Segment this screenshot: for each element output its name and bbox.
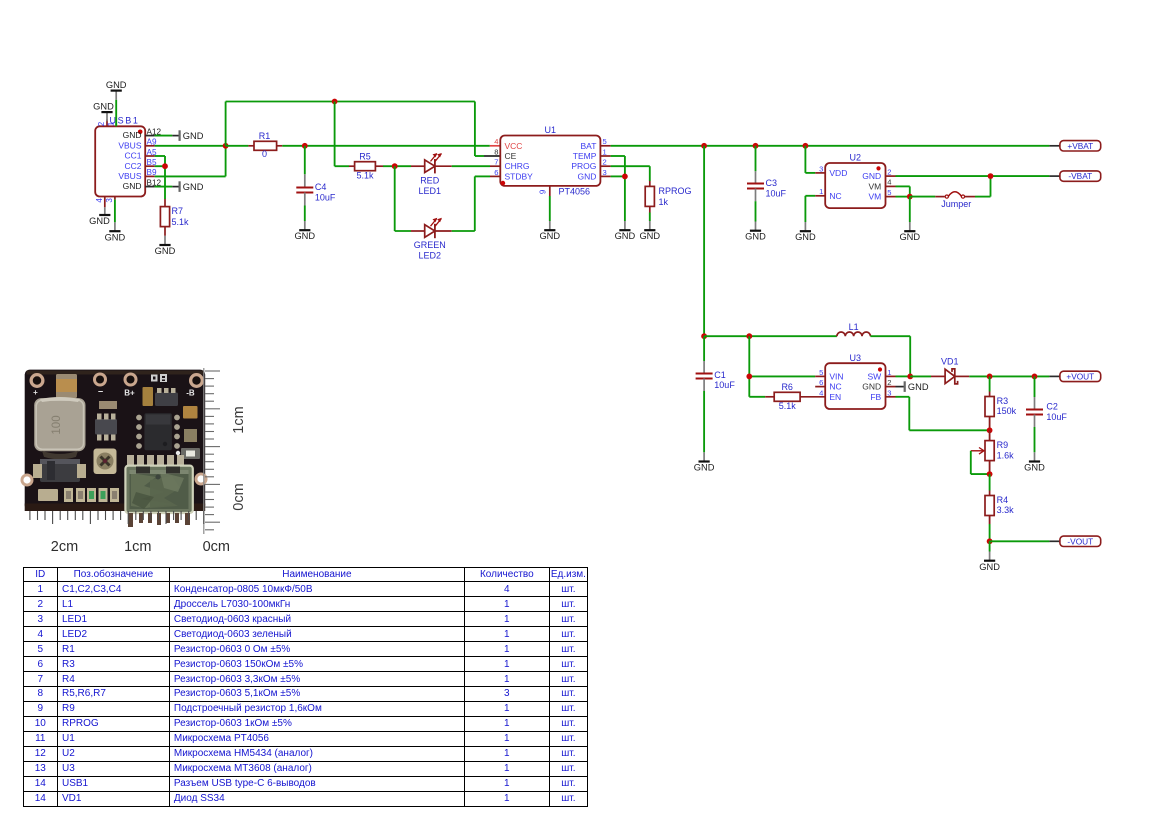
svg-text:GND: GND <box>745 232 766 242</box>
resistor R7 <box>160 199 189 236</box>
wire R1 to VCC <box>282 145 500 147</box>
transistor U2 HM5434 body <box>825 153 885 209</box>
node VIN junction <box>746 374 752 380</box>
inductor L1 <box>837 322 871 336</box>
wire SW to VD1 anode <box>910 375 945 377</box>
U3 pin SW name and number 1 <box>867 368 891 382</box>
U1 pin VCC name and number 4 <box>494 137 522 151</box>
svg-text:4: 4 <box>887 178 891 187</box>
ground above USB1 pin 1 <box>106 80 127 100</box>
ground below -VOUT junction <box>979 541 1000 572</box>
svg-text:9: 9 <box>539 189 548 194</box>
wire CC1 A5 to CC2 net <box>145 156 165 199</box>
U3 pin EN name and number 4 <box>819 388 841 402</box>
ground below U1 pin 9 <box>539 221 560 241</box>
ground below C4 <box>294 221 315 241</box>
svg-text:3: 3 <box>603 168 607 177</box>
svg-text:1k: 1k <box>659 197 669 207</box>
ground below C1 <box>694 452 715 472</box>
small parts near SOP8 bottom <box>181 448 200 459</box>
svg-text:100: 100 <box>51 415 63 434</box>
svg-text:FB: FB <box>870 392 881 402</box>
svg-text:SW: SW <box>867 372 881 382</box>
svg-text:GND: GND <box>123 181 142 191</box>
svg-text:L1: L1 <box>849 322 859 332</box>
svg-text:CHRG: CHRG <box>505 161 530 171</box>
svg-text:GND: GND <box>539 231 560 241</box>
node BAT junction to boost <box>701 143 707 149</box>
svg-text:3: 3 <box>819 164 823 173</box>
svg-text:−: − <box>98 387 103 397</box>
svg-text:VDD: VDD <box>829 168 847 178</box>
ground right of U3 GND <box>905 381 929 392</box>
wire U1 pin9 to ground <box>549 196 551 221</box>
svg-text:GND: GND <box>694 463 715 473</box>
svg-text:5.1k: 5.1k <box>356 170 374 180</box>
U2 pin VM name and number 5 <box>868 188 891 202</box>
diode below inductor <box>40 459 80 482</box>
power flag +VBAT <box>1060 141 1101 151</box>
svg-text:R6: R6 <box>781 382 793 392</box>
node R9 wiper junction <box>987 471 993 477</box>
USB1 pin 2 stub (top left) <box>97 120 107 127</box>
svg-text:C3: C3 <box>766 178 778 188</box>
diode VD1 SS34 schottky <box>941 357 969 384</box>
svg-text:5.1k: 5.1k <box>779 401 797 411</box>
svg-text:R4: R4 <box>997 495 1009 505</box>
wire VD1 to +VOUT <box>969 375 1060 377</box>
svg-text:R5: R5 <box>359 151 371 161</box>
wire VBUS B9 up to A9 net <box>145 146 225 177</box>
svg-text:NC: NC <box>829 382 841 392</box>
svg-text:R3: R3 <box>997 396 1009 406</box>
ground below C3 <box>745 222 766 242</box>
wire L1 to SW <box>870 336 910 376</box>
svg-text:RPROG: RPROG <box>659 186 692 196</box>
resistor R5 <box>349 151 383 180</box>
svg-text:VBUS: VBUS <box>118 171 141 181</box>
ground below RPROG <box>639 221 660 241</box>
svg-text:10uF: 10uF <box>315 193 336 203</box>
svg-text:10uF: 10uF <box>1046 412 1067 422</box>
svg-text:2: 2 <box>887 168 891 177</box>
U3 pin VIN name and number 5 <box>819 368 843 382</box>
ruler <box>30 368 247 555</box>
node SW junction <box>907 374 913 380</box>
U1 pin BAT name and number 5 <box>580 137 606 151</box>
svg-text:4: 4 <box>95 198 104 203</box>
svg-text:R1: R1 <box>259 131 271 141</box>
svg-text:1.6k: 1.6k <box>997 450 1015 460</box>
svg-text:GREEN: GREEN <box>414 240 446 250</box>
wire VIN branch <box>749 336 825 397</box>
svg-text:GND: GND <box>979 562 1000 572</box>
wire U2 VDD to BAT <box>805 146 825 173</box>
op-amp U1 PT4056 body <box>500 125 600 196</box>
bottom row passives <box>38 489 58 501</box>
node CC junction <box>162 163 168 169</box>
U1 pin 9 bottom stub <box>539 186 550 196</box>
svg-text:GND: GND <box>795 232 816 242</box>
svg-text:Jumper: Jumper <box>941 199 971 209</box>
svg-text:TEMP: TEMP <box>573 151 597 161</box>
svg-text:GND: GND <box>862 171 881 181</box>
top right SOT89 <box>155 393 178 407</box>
U2 pin VM name and number 4 <box>868 178 891 192</box>
svg-text:-VBAT: -VBAT <box>1068 171 1092 181</box>
U1 pin PROG name and number 2 <box>571 158 606 172</box>
svg-text:-B: -B <box>186 389 195 398</box>
svg-text:GND: GND <box>106 80 127 90</box>
USB1 pin 3 stub (bottom) <box>105 197 115 203</box>
svg-text:VBUS: VBUS <box>118 140 141 150</box>
U3 pin NC name and number 6 <box>815 378 841 392</box>
U3 pin FB name and number 3 <box>870 388 891 402</box>
svg-text:3.3k: 3.3k <box>997 505 1015 515</box>
wire top rail <box>226 101 475 103</box>
USB1 pin 4 stub (bottom left) <box>95 197 105 208</box>
svg-text:4: 4 <box>819 388 823 397</box>
node junction at VIN branch <box>746 333 752 339</box>
capacitor C2 <box>1026 376 1067 452</box>
svg-text:+: + <box>33 388 38 397</box>
svg-text:2: 2 <box>603 158 607 167</box>
svg-text:5: 5 <box>819 368 823 377</box>
svg-text:PROG: PROG <box>571 161 596 171</box>
connector USB1 <box>95 116 161 197</box>
wire USB1 pin3 to ground <box>114 200 116 223</box>
wire U3 GND pin to ground <box>886 386 904 388</box>
wire jumper up to -VBAT <box>990 176 992 197</box>
wire U2 VM pin5 <box>886 196 910 198</box>
svg-text:0cm: 0cm <box>203 539 230 555</box>
svg-text:3: 3 <box>105 198 114 203</box>
ground right of A12 <box>180 130 204 141</box>
wire R5 to LED1 <box>383 165 425 167</box>
wire U3 FB to divider <box>886 397 990 431</box>
jumper JP1 <box>910 192 991 209</box>
svg-text:7: 7 <box>494 158 498 167</box>
U2 pin GND name and number 2 <box>862 168 891 182</box>
svg-text:5: 5 <box>887 188 891 197</box>
svg-text:1: 1 <box>603 147 607 156</box>
capacitor C4 <box>296 146 336 221</box>
USB type-C connector <box>125 466 192 527</box>
ground below USB1 pin 3 <box>105 222 126 242</box>
U1 pin CE name and number 8 <box>494 147 516 161</box>
svg-text:+VBAT: +VBAT <box>1067 141 1093 151</box>
ground right of B12 <box>180 181 204 192</box>
svg-text:150k: 150k <box>997 406 1017 416</box>
resistor R6 <box>749 382 825 411</box>
SOP8 <box>144 413 172 450</box>
svg-text:C2: C2 <box>1046 402 1058 412</box>
svg-text:GND: GND <box>105 232 126 242</box>
svg-text:LED1: LED1 <box>418 186 441 196</box>
svg-text:GND: GND <box>183 131 204 141</box>
svg-text:BAT: BAT <box>580 141 596 151</box>
node BAT junction at U2 VDD <box>803 143 809 149</box>
svg-text:CC2: CC2 <box>124 161 141 171</box>
svg-text:R9: R9 <box>997 440 1009 450</box>
U1 pin GND name and number 3 <box>578 168 607 182</box>
svg-text:2cm: 2cm <box>51 539 78 555</box>
wire LED2 to STDBY <box>435 176 501 231</box>
svg-text:1cm: 1cm <box>231 406 247 433</box>
svg-text:0: 0 <box>262 149 267 159</box>
svg-text:GND: GND <box>639 231 660 241</box>
U3 pin GND name and number 2 <box>862 378 891 392</box>
node boost input junction <box>701 333 707 339</box>
SOT23-6 <box>95 419 117 435</box>
resistor R1 <box>226 131 283 159</box>
svg-text:U2: U2 <box>850 153 862 163</box>
ground below TEMP net <box>615 221 636 241</box>
wire U2 GND to -VBAT <box>886 175 1060 177</box>
node TEMP-GND junction <box>622 174 628 180</box>
U2 pin NC name and number 1 <box>819 187 842 201</box>
wire PROG to RPROG <box>600 166 649 181</box>
svg-text:CC1: CC1 <box>124 151 141 161</box>
svg-text:PT4056: PT4056 <box>559 186 591 196</box>
wire to -VOUT flag <box>990 540 1060 542</box>
svg-text:STDBY: STDBY <box>505 171 534 181</box>
power flag +VOUT <box>1060 371 1101 381</box>
svg-text:8: 8 <box>494 147 498 156</box>
svg-text:GND: GND <box>123 130 142 140</box>
mounting holes <box>30 373 45 388</box>
node +VOUT junction at C2 <box>1032 374 1038 380</box>
wire top rail to R5 <box>335 102 349 167</box>
tan capacitor top-left <box>56 374 77 398</box>
svg-text:VIN: VIN <box>829 372 843 382</box>
U1 pin CHRG name and number 7 <box>494 158 529 172</box>
node BAT junction at C3 <box>753 143 759 149</box>
wire U2 VM pin4 <box>886 186 910 196</box>
wire USB1 pin1 to ground <box>115 100 117 127</box>
svg-text:10uF: 10uF <box>766 188 787 198</box>
svg-text:VD1: VD1 <box>941 357 959 367</box>
wire junction down to LED2 <box>395 166 425 231</box>
svg-text:5.1k: 5.1k <box>172 217 190 227</box>
svg-text:1: 1 <box>819 187 823 196</box>
wire USB1 B12 GND pin <box>145 186 179 188</box>
node VBUS junction <box>223 143 229 149</box>
ground below U2 NC <box>795 222 816 242</box>
svg-text:NC: NC <box>829 191 841 201</box>
node -VBAT junction <box>988 173 994 179</box>
svg-text:GND: GND <box>1024 463 1045 473</box>
node top rail junction at R5 branch <box>332 99 338 105</box>
wire BAT down to boost input <box>703 146 705 336</box>
wire LED1 to CHRG <box>435 165 501 167</box>
svg-text:VM: VM <box>868 181 881 191</box>
svg-text:VCC: VCC <box>505 141 523 151</box>
svg-text:U1: U1 <box>545 125 557 135</box>
trimmer <box>94 449 117 475</box>
svg-text:6: 6 <box>494 168 498 177</box>
node VM junction <box>907 194 913 200</box>
wire boost input rail <box>704 335 837 337</box>
ground below USB1 pin 4 <box>89 207 110 226</box>
resistor R3 <box>985 376 1017 430</box>
ground below R7 <box>155 236 176 256</box>
wire top rail down to CE <box>475 102 500 157</box>
node -VOUT junction <box>987 538 993 544</box>
node +VOUT junction at R3 <box>987 374 993 380</box>
svg-text:1: 1 <box>106 121 115 126</box>
svg-text:GND: GND <box>294 231 315 241</box>
svg-text:+VOUT: +VOUT <box>1066 371 1094 381</box>
inductor <box>34 398 85 451</box>
resistor R4 <box>985 474 1014 541</box>
svg-text:R7: R7 <box>172 206 184 216</box>
svg-text:GND: GND <box>899 232 920 242</box>
wire U2 NC to ground <box>805 196 825 222</box>
transistor U3 MT3608 body <box>825 353 885 409</box>
svg-text:GND: GND <box>862 382 881 392</box>
capacitor C3 <box>747 146 787 222</box>
U1 pin TEMP name and number 1 <box>573 147 607 161</box>
LED LED2 green <box>414 218 446 261</box>
resistor RPROG <box>645 181 691 221</box>
wire VM to ground <box>909 197 911 222</box>
svg-text:C1: C1 <box>714 370 726 380</box>
wire VBUS A9 to junction <box>145 145 225 147</box>
U2 pin VDD name and number 3 <box>819 164 847 178</box>
U1 pin STDBY name and number 6 <box>494 168 533 182</box>
svg-text:C4: C4 <box>315 182 327 192</box>
svg-text:CE: CE <box>505 151 517 161</box>
svg-text:U3: U3 <box>850 353 862 363</box>
svg-text:4: 4 <box>494 137 498 146</box>
wire USB1 A12 GND pin <box>145 135 179 137</box>
power flag -VBAT <box>1060 171 1101 181</box>
svg-text:10uF: 10uF <box>714 380 735 390</box>
svg-text:RED: RED <box>420 175 440 185</box>
svg-text:GND: GND <box>908 382 929 392</box>
svg-text:GND: GND <box>89 216 110 226</box>
svg-text:2: 2 <box>97 121 106 126</box>
wire U1 GND pin to TEMP net <box>600 175 625 177</box>
ground above USB1 pin 2 <box>93 102 114 122</box>
svg-text:EN: EN <box>829 392 841 402</box>
node LED branch junction <box>392 163 398 169</box>
svg-text:5: 5 <box>603 137 607 146</box>
power flag -VOUT <box>1060 536 1101 546</box>
wire CC2 B5 <box>145 165 165 167</box>
USB1 pin 1 stub (top) <box>106 120 116 127</box>
ground below C2 <box>1024 452 1045 472</box>
svg-text:-VOUT: -VOUT <box>1067 536 1093 546</box>
pads row above USB <box>127 455 134 465</box>
LED LED1 red <box>418 153 441 196</box>
capacitor C1 <box>696 336 736 452</box>
wire BAT output rail <box>600 145 1060 147</box>
svg-text:B+: B+ <box>124 389 135 398</box>
svg-text:1cm: 1cm <box>124 539 151 555</box>
svg-text:GND: GND <box>578 171 597 181</box>
node junction at C4 <box>302 143 308 149</box>
svg-text:GND: GND <box>155 246 176 256</box>
ground below U2 VM <box>899 222 920 242</box>
svg-text:GND: GND <box>615 231 636 241</box>
svg-text:GND: GND <box>183 182 204 192</box>
wire TEMP to ground <box>600 156 625 221</box>
svg-text:VM: VM <box>868 192 881 202</box>
trimmer resistor R9 <box>971 430 1014 474</box>
svg-text:0cm: 0cm <box>231 483 247 510</box>
svg-text:LED2: LED2 <box>418 251 441 261</box>
svg-text:GND: GND <box>93 102 114 112</box>
node FB junction <box>987 427 993 433</box>
wire U3 SW to diode <box>886 375 911 377</box>
PCB board photo <box>21 370 208 511</box>
wire VBUS up to top rail <box>225 102 227 146</box>
